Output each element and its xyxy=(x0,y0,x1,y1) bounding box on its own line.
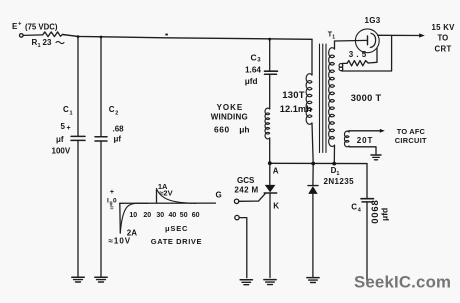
svg-text:+: + xyxy=(67,125,71,132)
svg-text:+: + xyxy=(110,189,114,196)
svg-text:CIRCUIT: CIRCUIT xyxy=(395,136,427,145)
svg-text:10: 10 xyxy=(129,212,137,219)
svg-text:5: 5 xyxy=(61,122,66,131)
svg-text:100V: 100V xyxy=(52,146,71,155)
svg-text:1: 1 xyxy=(332,35,335,41)
svg-text:≈10V: ≈10V xyxy=(109,236,132,245)
svg-text:0: 0 xyxy=(113,198,117,205)
svg-text:30: 30 xyxy=(156,212,164,219)
svg-text:4: 4 xyxy=(358,208,362,214)
svg-text:12.1mh: 12.1mh xyxy=(280,104,312,114)
svg-text:50: 50 xyxy=(180,212,188,219)
svg-text:1.64: 1.64 xyxy=(245,65,261,74)
svg-text:G: G xyxy=(216,190,222,199)
svg-text:3: 3 xyxy=(257,58,261,64)
svg-text:2N1235: 2N1235 xyxy=(324,177,355,186)
svg-text:CRT: CRT xyxy=(435,45,452,54)
svg-text:C: C xyxy=(251,52,257,62)
svg-text:2: 2 xyxy=(115,111,118,117)
svg-text:A: A xyxy=(273,167,279,176)
svg-text:μf: μf xyxy=(56,135,64,144)
svg-text:.68: .68 xyxy=(113,125,125,134)
svg-text:C: C xyxy=(109,105,115,114)
svg-text:1: 1 xyxy=(38,43,41,49)
svg-text:(75 VDC): (75 VDC) xyxy=(25,23,58,32)
svg-text:GCS: GCS xyxy=(237,176,255,185)
svg-text:C: C xyxy=(351,203,357,212)
svg-text:20: 20 xyxy=(143,212,151,219)
svg-text:40: 40 xyxy=(169,212,177,219)
svg-text:20T: 20T xyxy=(357,136,374,145)
svg-text:60: 60 xyxy=(192,212,200,219)
svg-text:SeekIC.com: SeekIC.com xyxy=(354,273,451,292)
svg-text:μh: μh xyxy=(239,125,249,135)
svg-text:3000 T: 3000 T xyxy=(351,93,382,103)
svg-text:3.5: 3.5 xyxy=(349,50,370,59)
svg-text:YOKE: YOKE xyxy=(217,103,244,112)
svg-text:1G3: 1G3 xyxy=(365,16,381,25)
svg-text:GATE DRIVE: GATE DRIVE xyxy=(151,237,202,246)
svg-text:1: 1 xyxy=(70,111,73,117)
svg-text:23: 23 xyxy=(43,38,52,47)
svg-text:μf: μf xyxy=(114,135,122,144)
svg-text:1: 1 xyxy=(336,171,339,177)
svg-text:TO AFC: TO AFC xyxy=(397,127,426,136)
svg-text:TO: TO xyxy=(438,33,449,42)
svg-text:K: K xyxy=(273,202,279,211)
svg-text:μSEC: μSEC xyxy=(165,224,188,233)
svg-text:≈2V: ≈2V xyxy=(159,189,172,198)
svg-text:15 KV: 15 KV xyxy=(432,23,456,32)
svg-text:WINDING: WINDING xyxy=(211,112,248,121)
svg-text:μfd: μfd xyxy=(379,208,389,221)
svg-text:μfd: μfd xyxy=(245,77,258,86)
svg-text:=: = xyxy=(110,205,114,212)
svg-text:242 M: 242 M xyxy=(234,186,258,195)
svg-text:C: C xyxy=(63,105,69,114)
svg-text:130T: 130T xyxy=(282,90,304,101)
svg-text:+: + xyxy=(18,22,22,28)
svg-text:660: 660 xyxy=(214,125,230,135)
